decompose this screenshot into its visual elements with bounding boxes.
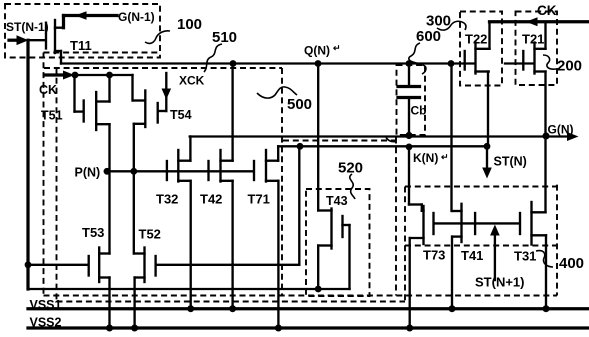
wire T21 drain to CK <box>544 22 546 49</box>
wire T71 drain to K line <box>277 146 279 160</box>
label 200 <box>557 58 582 75</box>
outer dashed box bottom edge <box>44 295 558 297</box>
svg-text:G(N): G(N) <box>548 123 574 137</box>
svg-text:200: 200 <box>557 58 582 75</box>
wire T52 source to VSS2 <box>133 278 135 329</box>
dashed edge under G(N) line <box>283 140 396 142</box>
svg-text:G(N-1): G(N-1) <box>118 10 155 24</box>
label T52 <box>139 227 161 242</box>
wire T53 source to VSS2 <box>108 278 110 329</box>
svg-text:500: 500 <box>287 96 312 113</box>
wire Q(N) line <box>61 62 534 64</box>
svg-text:T52: T52 <box>139 227 161 242</box>
svg-text:Q(N): Q(N) <box>304 44 330 58</box>
svg-text:T31: T31 <box>514 249 536 264</box>
wire VSS1 rail <box>28 307 589 310</box>
label CK left <box>39 83 57 97</box>
svg-text:P(N): P(N) <box>75 166 101 180</box>
transistor T42 <box>209 150 233 182</box>
wire Cb to T73 drain <box>409 147 422 211</box>
box 500 right edge <box>281 68 283 296</box>
wire T51 source to P(N) <box>108 124 110 171</box>
wire T71 source to VSS2 <box>277 181 279 328</box>
wire P(N) node line <box>105 170 254 172</box>
wire T53 drain to P(N) <box>108 171 110 253</box>
arrowhead CK top <box>526 17 538 26</box>
svg-text:T73: T73 <box>423 248 445 263</box>
label T51 <box>41 109 63 123</box>
label ST(N-1) <box>6 20 49 34</box>
label T73 <box>423 248 445 263</box>
svg-text:520: 520 <box>338 160 363 177</box>
box 400 bottom edge <box>405 245 557 247</box>
node dot K line T52 branch <box>297 143 304 150</box>
wire gate row T73 T41 T31 <box>435 222 520 224</box>
label T43 <box>326 194 348 208</box>
wire CK input left <box>45 73 64 76</box>
box 500 top edge <box>44 67 282 69</box>
node dot VSS1 T31 <box>543 305 550 312</box>
svg-text:T71: T71 <box>248 192 270 207</box>
node dot G output junction <box>542 132 549 139</box>
wire T41 drain to Q node <box>450 64 452 212</box>
wire T42 drain to Q node <box>231 64 233 161</box>
transistor T43 <box>318 209 349 290</box>
transistor T31 <box>520 202 546 245</box>
node dot VSS1 T41 <box>449 305 456 312</box>
outer dashed box top edge <box>44 52 161 54</box>
svg-text:300: 300 <box>426 13 451 30</box>
wire T32 drain to G line <box>189 137 191 161</box>
arrowhead XCK <box>162 89 172 100</box>
wire T42 source to VSS1 <box>231 181 233 309</box>
wire T43 drain to Q node <box>317 64 319 211</box>
wire T22 drain to CK <box>488 22 490 49</box>
svg-text:T51: T51 <box>41 109 63 123</box>
label ST(N+1) <box>475 275 524 290</box>
node dot VSS2 T73 <box>406 325 413 332</box>
wire ST(N-1) input <box>9 39 18 42</box>
wire T31 source to VSS1 <box>545 235 547 308</box>
outer dashed box left edge <box>43 53 45 297</box>
svg-text:VSS2: VSS2 <box>30 316 62 330</box>
svg-text:400: 400 <box>559 255 584 272</box>
transistor T54 <box>133 91 158 128</box>
wire CK top line <box>490 20 589 23</box>
box around T22 <box>460 12 502 86</box>
svg-text:ST(N): ST(N) <box>494 155 527 169</box>
svg-text:100: 100 <box>177 16 202 33</box>
label T22 <box>465 32 487 47</box>
arrowhead G(N-1) <box>75 11 87 20</box>
box 400 left edge <box>404 187 406 302</box>
label T53 <box>82 225 104 240</box>
label T11 <box>70 38 92 53</box>
wire ST(N) output <box>486 146 488 170</box>
node dot Q vertical T42 <box>230 60 237 67</box>
node dot Cb bottom on G line <box>405 132 412 139</box>
svg-text:T11: T11 <box>70 38 92 53</box>
svg-text:XCK: XCK <box>179 74 205 88</box>
outer dashed box right edge <box>556 185 558 296</box>
box 520 <box>306 189 370 296</box>
node dot VSS1 T32 <box>187 305 194 312</box>
node dot Cb top <box>406 60 413 67</box>
wire T54 source to P(N) <box>133 124 135 172</box>
wire T22 source to K line <box>487 72 489 147</box>
node dot CK T51 drain <box>106 72 113 79</box>
transistor T53 <box>28 248 110 283</box>
node dot VSS1 T42 <box>229 305 236 312</box>
wire VSS2 rail <box>28 326 589 329</box>
leader squiggle 100 <box>145 31 170 44</box>
svg-text:VSS1: VSS1 <box>30 298 62 312</box>
leader squiggle 300 <box>437 21 466 30</box>
box 500 left edge <box>56 68 58 302</box>
leader squiggle 400 <box>536 251 553 267</box>
arrowhead ST(N) <box>482 168 492 179</box>
label 100 <box>177 16 202 33</box>
box 600 <box>397 65 426 135</box>
node dot CK T51 gate <box>72 72 79 79</box>
label T41 <box>461 248 483 263</box>
node dot P(N) right <box>130 168 137 175</box>
transistor T51 <box>75 75 110 130</box>
label T54 <box>170 108 192 122</box>
svg-text:CK: CK <box>39 83 57 97</box>
label 520 <box>338 160 363 177</box>
label T21 <box>522 32 544 47</box>
wire ST(N+1) input <box>494 232 496 280</box>
label VSS2 <box>30 316 62 330</box>
label G(N-1) <box>118 10 155 24</box>
leader squiggle 500 <box>257 87 297 98</box>
node dot T53 gate tap <box>25 261 32 268</box>
wire T41 source to VSS1 <box>451 237 453 309</box>
node dot P(N) left <box>104 168 111 175</box>
label 500 <box>287 96 312 113</box>
svg-text:T21: T21 <box>522 32 544 47</box>
svg-text:T22: T22 <box>465 32 487 47</box>
node dot bottom line T43 <box>315 286 322 293</box>
wire T73 source to VSS2 <box>409 238 411 328</box>
svg-text:Cb: Cb <box>411 104 427 118</box>
label 300 <box>426 13 451 30</box>
label 510 <box>212 29 237 46</box>
transistor T41 <box>453 204 476 242</box>
label CK top <box>537 3 557 18</box>
label 400 <box>559 255 584 272</box>
node dot K line ST(N) <box>484 143 491 150</box>
label G(N) <box>548 123 574 137</box>
svg-text:T32: T32 <box>156 192 178 207</box>
transistor T73 <box>410 206 434 244</box>
wire CK to T54 drain <box>75 75 133 101</box>
box 500 bottom edge <box>57 301 406 303</box>
label ST(N) <box>494 155 527 169</box>
label XCK <box>179 74 205 88</box>
node dot VSS2 T52 <box>131 325 138 332</box>
leader squiggle 520 <box>350 174 355 199</box>
wire XCK input <box>159 73 167 111</box>
box 100 <box>5 4 160 58</box>
wire bottom node line <box>28 288 350 290</box>
wire K(N) line <box>278 145 487 147</box>
svg-text:↵: ↵ <box>441 152 449 162</box>
svg-text:T54: T54 <box>170 108 192 122</box>
transistor T71 <box>254 150 278 182</box>
wire G(N) output line <box>190 135 570 137</box>
wire T52 gate to K(N) <box>157 146 300 264</box>
arrowhead ST(N+1) <box>490 225 500 236</box>
dashed vertical edge x=396 <box>395 138 397 296</box>
svg-text:T41: T41 <box>461 248 483 263</box>
transistor T21 <box>523 43 545 74</box>
wire T21 source to T31 drain <box>544 72 546 213</box>
label Cb <box>411 104 427 118</box>
svg-text:↵: ↵ <box>333 43 341 53</box>
transistor T32 <box>167 150 191 182</box>
wire T43 source to W288 <box>317 246 319 290</box>
transistor T11 <box>28 20 64 64</box>
svg-text:ST(N+1): ST(N+1) <box>475 275 524 290</box>
node dot Q vertical T41 <box>448 60 455 67</box>
leader squiggle 600 <box>409 43 426 74</box>
arrowhead CK left <box>63 71 75 80</box>
node dot VSS2 T53 <box>106 325 113 332</box>
label P(N) <box>75 166 101 180</box>
leader squiggle 510 <box>204 44 222 72</box>
node dot VSS2 T71 <box>275 325 282 332</box>
wire T52 drain to P(N) <box>133 171 135 253</box>
svg-text:K(N): K(N) <box>413 151 438 165</box>
svg-text:CK: CK <box>537 3 557 18</box>
transistor T52 <box>134 248 156 283</box>
wire T32 source to VSS1 <box>190 181 192 309</box>
arrowhead G(N) <box>567 132 579 141</box>
label K(N) <box>413 151 449 165</box>
svg-text:T43: T43 <box>326 194 348 208</box>
svg-text:T53: T53 <box>82 225 104 240</box>
svg-text:510: 510 <box>212 29 237 46</box>
svg-text:ST(N-1): ST(N-1) <box>6 20 49 34</box>
label 600 <box>416 28 441 45</box>
label T42 <box>200 192 222 207</box>
label T31 <box>514 249 536 264</box>
label T71 <box>248 192 270 207</box>
box 400 top edge <box>405 186 557 188</box>
label T32 <box>156 192 178 207</box>
wire ST(N-1) vertical branch <box>26 40 29 289</box>
box around T21 <box>516 12 558 86</box>
label VSS1 <box>30 298 62 312</box>
wire G line start jog <box>386 138 395 142</box>
node Q(N) label <box>304 43 341 58</box>
arrowhead ST(N-1) <box>17 35 29 45</box>
transistor T22 <box>465 43 490 74</box>
svg-text:T42: T42 <box>200 192 222 207</box>
node dot K line Cb branch <box>406 144 413 151</box>
wire G(N-1) input line <box>64 16 118 28</box>
node dot Q vertical T43 <box>315 60 322 67</box>
capacitor Cb <box>398 64 420 136</box>
leader squiggle 200 <box>543 55 556 69</box>
